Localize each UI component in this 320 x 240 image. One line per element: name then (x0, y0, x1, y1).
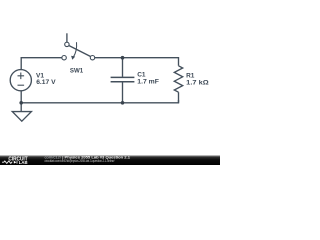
svg-text:6.17 V: 6.17 V (36, 79, 56, 86)
svg-text:C1: C1 (137, 72, 146, 79)
svg-text:1.7 kΩ: 1.7 kΩ (186, 79, 209, 86)
svg-text:1.7 mF: 1.7 mF (137, 79, 159, 86)
svg-text:SW1: SW1 (70, 67, 84, 74)
svg-text:circuitlab.com/c/b87dk/physics: circuitlab.com/c/b87dk/physics-2055-lab-… (45, 159, 115, 163)
svg-text:LAB: LAB (19, 160, 29, 165)
